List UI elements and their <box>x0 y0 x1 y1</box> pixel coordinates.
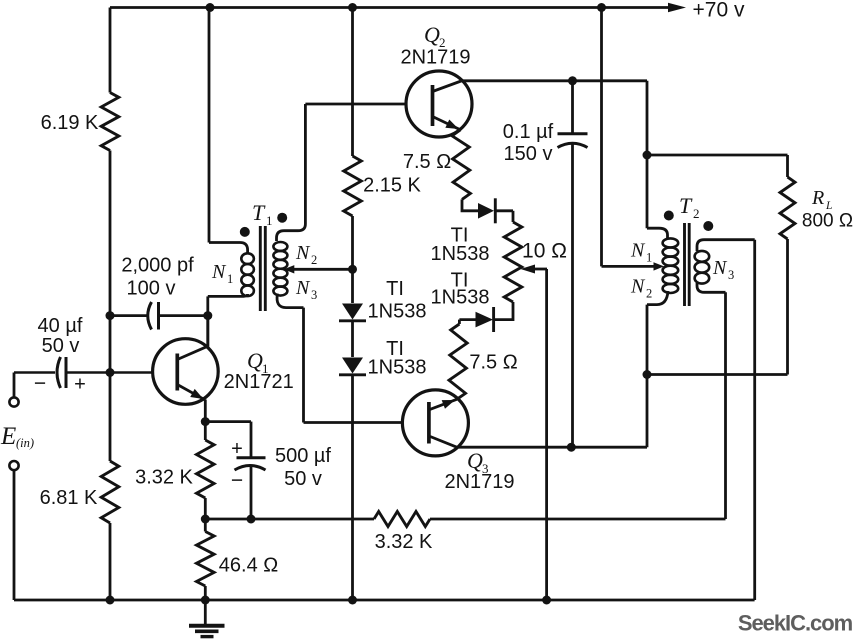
svg-text:N: N <box>630 276 646 298</box>
svg-text:2N1719: 2N1719 <box>400 47 470 69</box>
svg-text:40 µf: 40 µf <box>38 315 83 337</box>
svg-text:(in): (in) <box>16 436 34 450</box>
svg-text:−: − <box>231 469 243 492</box>
svg-text:100 v: 100 v <box>127 278 176 300</box>
svg-text:N: N <box>295 277 311 299</box>
svg-text:1N538: 1N538 <box>431 287 490 309</box>
svg-text:1: 1 <box>266 213 273 228</box>
svg-text:+: + <box>231 438 243 460</box>
svg-text:150 v: 150 v <box>504 143 553 165</box>
svg-text:7.5 Ω: 7.5 Ω <box>469 352 517 374</box>
svg-text:Q: Q <box>424 22 440 47</box>
svg-text:Q: Q <box>467 448 483 473</box>
svg-text:T: T <box>679 193 693 218</box>
svg-text:−: − <box>34 372 46 395</box>
svg-text:10 Ω: 10 Ω <box>522 240 567 263</box>
svg-text:R: R <box>811 187 824 209</box>
svg-text:N: N <box>211 261 227 283</box>
svg-text:1: 1 <box>227 272 233 286</box>
svg-text:N: N <box>630 240 646 262</box>
svg-text:1: 1 <box>646 251 652 265</box>
svg-text:7.5 Ω: 7.5 Ω <box>403 151 451 173</box>
svg-text:2N1719: 2N1719 <box>444 471 514 493</box>
svg-text:SeekIC.com: SeekIC.com <box>738 611 853 636</box>
svg-text:46.4 Ω: 46.4 Ω <box>219 555 278 577</box>
svg-text:0.1 µf: 0.1 µf <box>503 121 554 143</box>
svg-text:3: 3 <box>311 288 317 302</box>
svg-text:2N1721: 2N1721 <box>224 371 294 393</box>
svg-text:2.15 K: 2.15 K <box>363 175 421 197</box>
svg-text:1N538: 1N538 <box>368 357 427 379</box>
svg-text:N: N <box>712 257 728 279</box>
svg-text:500 µf: 500 µf <box>275 445 331 467</box>
svg-text:3.32 K: 3.32 K <box>135 467 193 489</box>
svg-text:50 v: 50 v <box>42 335 80 357</box>
svg-text:3: 3 <box>728 268 734 282</box>
svg-text:6.19 K: 6.19 K <box>41 112 99 134</box>
svg-text:T: T <box>252 200 266 225</box>
svg-text:TI: TI <box>386 278 404 300</box>
svg-text:2: 2 <box>646 287 652 301</box>
svg-text:+: + <box>74 374 86 396</box>
svg-text:1N538: 1N538 <box>431 243 490 265</box>
svg-text:2: 2 <box>311 253 317 267</box>
svg-text:6.81 K: 6.81 K <box>40 487 98 509</box>
svg-text:800 Ω: 800 Ω <box>802 211 853 232</box>
svg-text:1N538: 1N538 <box>368 301 427 323</box>
svg-text:N: N <box>295 242 311 264</box>
svg-text:E: E <box>0 423 16 450</box>
svg-text:50 v: 50 v <box>284 468 322 490</box>
svg-text:Q: Q <box>247 348 263 373</box>
svg-text:+70 v: +70 v <box>693 0 745 21</box>
svg-text:2: 2 <box>693 206 700 221</box>
svg-text:3.32 K: 3.32 K <box>375 531 433 553</box>
svg-text:2,000 pf: 2,000 pf <box>121 255 194 277</box>
